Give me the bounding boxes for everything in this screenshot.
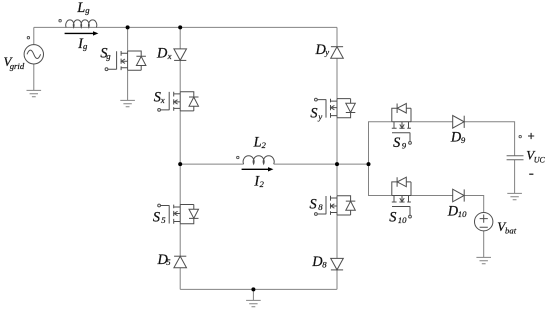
svg-text:g: g	[83, 41, 88, 51]
svg-text:g: g	[85, 5, 90, 15]
svg-text:UC: UC	[534, 155, 546, 164]
svg-text:S: S	[310, 106, 317, 122]
svg-text:S: S	[153, 210, 160, 226]
svg-text:2: 2	[260, 179, 265, 189]
svg-text:S: S	[393, 135, 400, 151]
svg-text:x: x	[160, 95, 165, 105]
svg-text:g: g	[106, 51, 111, 61]
svg-text:8: 8	[318, 202, 323, 212]
svg-text:10: 10	[398, 215, 407, 225]
svg-text:x: x	[167, 51, 172, 61]
svg-text:bat: bat	[505, 225, 517, 235]
svg-text:10: 10	[458, 209, 467, 219]
svg-text:2: 2	[262, 140, 267, 150]
svg-text:D: D	[156, 46, 168, 62]
svg-text:y: y	[324, 47, 329, 57]
svg-text:y: y	[317, 111, 322, 121]
svg-text:S: S	[389, 209, 396, 225]
svg-text:S: S	[310, 197, 317, 213]
svg-text:L: L	[253, 135, 262, 151]
svg-text:8: 8	[322, 260, 327, 270]
svg-text:5: 5	[166, 257, 171, 267]
svg-text:5: 5	[161, 215, 166, 225]
svg-text:L: L	[76, 0, 85, 16]
svg-text:9: 9	[402, 141, 407, 151]
svg-text:9: 9	[461, 135, 466, 145]
svg-text:grid: grid	[10, 61, 25, 71]
